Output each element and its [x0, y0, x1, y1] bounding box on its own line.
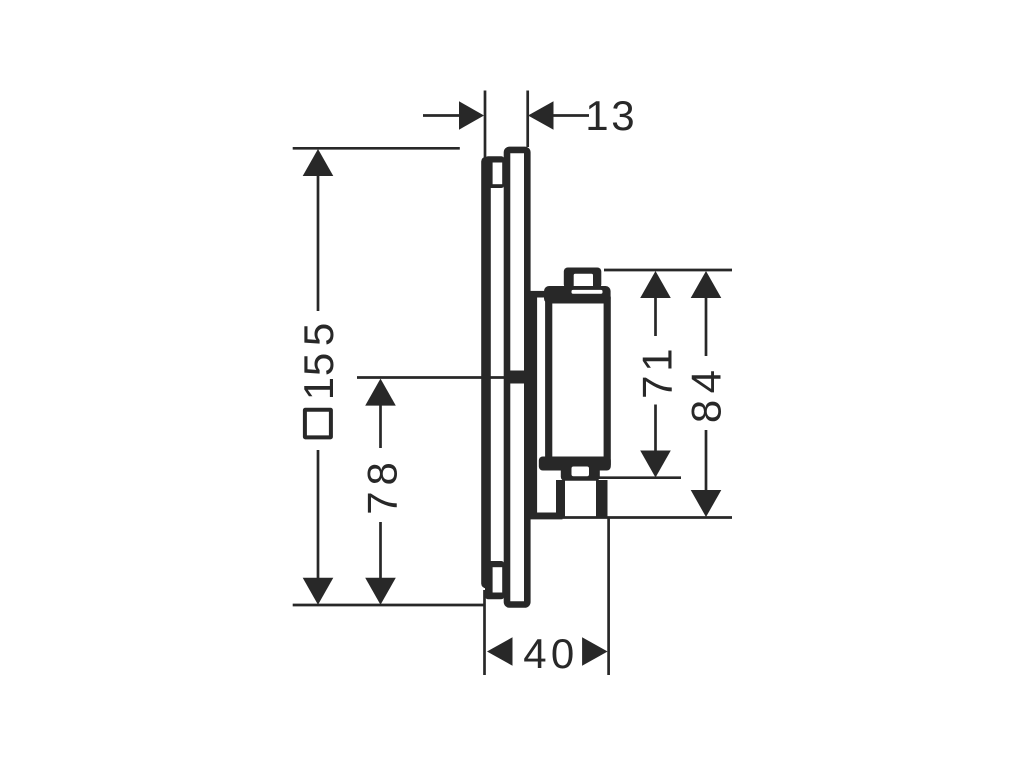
svg-text:4: 4 — [682, 370, 729, 393]
svg-text:7: 7 — [359, 491, 406, 514]
svg-text:8: 8 — [359, 462, 406, 485]
svg-text:5: 5 — [295, 323, 342, 346]
svg-text:3: 3 — [611, 92, 634, 139]
svg-text:4: 4 — [523, 630, 546, 677]
svg-text:1: 1 — [585, 92, 608, 139]
svg-text:5: 5 — [295, 353, 342, 376]
svg-text:8: 8 — [682, 400, 729, 423]
svg-text:1: 1 — [295, 377, 342, 400]
svg-text:0: 0 — [551, 630, 574, 677]
svg-text:7: 7 — [634, 376, 681, 399]
svg-text:1: 1 — [634, 348, 681, 371]
